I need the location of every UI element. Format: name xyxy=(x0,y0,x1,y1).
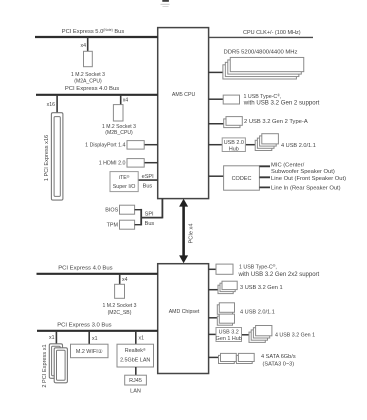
cropped heading remnant xyxy=(161,0,170,7)
svg-text:DDR5 5200/4800/4400 MHz: DDR5 5200/4800/4400 MHz xyxy=(223,49,297,55)
bus PCI Express 4.0 (CPU) xyxy=(36,94,158,96)
svg-text:PCI Express 4.0 Bus: PCI Express 4.0 Bus xyxy=(65,86,119,92)
svg-text:USB 3.2: USB 3.2 xyxy=(219,330,239,336)
wire drop x16 slot xyxy=(56,95,58,113)
AM5 CPU box U1 xyxy=(158,28,209,199)
svg-text:2.5GbE LAN: 2.5GbE LAN xyxy=(120,358,150,364)
wire drop M.2 WIFI xyxy=(88,331,90,345)
bus PCI Express 3.0 xyxy=(37,330,158,332)
RJ45 jack xyxy=(125,375,147,385)
USB 2.0 Hub xyxy=(222,138,245,152)
svg-text:(SATA3 0~3): (SATA3 0~3) xyxy=(263,361,295,367)
svg-text:x4: x4 xyxy=(122,277,128,283)
wire drop M2C xyxy=(119,274,121,285)
svg-text:(M2C_SB): (M2C_SB) xyxy=(108,310,132,316)
svg-text:x16: x16 xyxy=(47,102,55,108)
M.2 socket M2A_CPU xyxy=(84,51,93,66)
M.2 socket M2B_CPU xyxy=(113,105,123,121)
wire TPM to SPI junction xyxy=(135,224,142,226)
svg-text:4 USB 2.0/1.1: 4 USB 2.0/1.1 xyxy=(240,310,275,316)
svg-text:Gen 1 Hub: Gen 1 Hub xyxy=(216,336,242,342)
svg-text:eSPI: eSPI xyxy=(142,174,155,180)
svg-text:RJ45: RJ45 xyxy=(129,378,142,384)
svg-text:Bus: Bus xyxy=(143,184,153,190)
USB 2.0/1.1 double stack xyxy=(209,317,219,319)
svg-text:1 HDMI 2.0: 1 HDMI 2.0 xyxy=(99,161,126,167)
AMD Chipset box U2 xyxy=(158,264,209,374)
wire drop M2B xyxy=(120,95,122,105)
bus CPU CLK xyxy=(209,36,314,38)
svg-text:PCI Express 3.0 Bus: PCI Express 3.0 Bus xyxy=(57,323,111,329)
SPI junction bracket xyxy=(140,209,142,226)
svg-text:1 M.2 Socket 3: 1 M.2 Socket 3 xyxy=(103,303,137,309)
svg-text:Subwoofer Speaker Out): Subwoofer Speaker Out) xyxy=(271,169,335,175)
svg-text:BIOS: BIOS xyxy=(105,208,118,214)
TPM header xyxy=(120,220,135,229)
svg-text:1 M.2 Socket 3: 1 M.2 Socket 3 xyxy=(71,72,105,78)
svg-text:x1: x1 xyxy=(139,336,145,342)
svg-text:Super I/O: Super I/O xyxy=(113,184,136,190)
eSPI bus wire xyxy=(138,179,158,181)
CODEC xyxy=(209,175,225,177)
svg-text:3 USB 3.2 Gen 1: 3 USB 3.2 Gen 1 xyxy=(240,285,283,291)
USB 3.2 Gen 2 Type-A stack xyxy=(209,123,226,125)
svg-text:1 DisplayPort 1.4: 1 DisplayPort 1.4 xyxy=(85,143,125,149)
svg-text:1 M.2 Socket 3: 1 M.2 Socket 3 xyxy=(102,124,136,130)
svg-text:MIC (Center/: MIC (Center/ xyxy=(271,163,305,169)
SATA connectors xyxy=(209,356,220,358)
wire BIOS to SPI junction xyxy=(135,209,142,211)
wire CPU to USB 2.0 Hub xyxy=(209,144,224,146)
USB Type-C (CPU) xyxy=(209,98,225,100)
svg-text:Realtek®: Realtek® xyxy=(125,348,146,354)
SPI bus wire to CPU xyxy=(141,199,162,219)
audio jack wires xyxy=(259,166,270,187)
svg-text:(M2B_CPU): (M2B_CPU) xyxy=(105,130,133,136)
svg-text:x4: x4 xyxy=(123,98,129,104)
svg-text:M.2 WIFI①: M.2 WIFI① xyxy=(76,349,103,355)
DisplayPort connector xyxy=(144,144,158,146)
svg-text:CODEC: CODEC xyxy=(232,176,252,182)
svg-text:SPI: SPI xyxy=(145,212,154,218)
svg-text:2 USB 3.2 Gen 2 Type-A: 2 USB 3.2 Gen 2 Type-A xyxy=(244,119,308,125)
svg-text:TPM: TPM xyxy=(107,223,119,229)
M.2 WIFI slot xyxy=(71,344,109,358)
USB 3.2 Gen 1 Hub xyxy=(216,328,242,342)
svg-text:4 USB 3.2 Gen 1: 4 USB 3.2 Gen 1 xyxy=(275,332,315,338)
svg-text:Line In (Rear Speaker Out): Line In (Rear Speaker Out) xyxy=(271,186,341,192)
svg-text:with USB 3.2 Gen 2 support: with USB 3.2 Gen 2 support xyxy=(243,100,320,107)
USB 3.2 Gen 1 stack xyxy=(209,289,220,291)
HDMI connector xyxy=(144,162,158,164)
svg-text:1 PCI Express x16: 1 PCI Express x16 xyxy=(44,135,50,181)
wire drop PCIe x1 slots xyxy=(55,331,57,344)
svg-text:AMD Chipset: AMD Chipset xyxy=(169,309,200,315)
svg-text:4 SATA 6Gb/s: 4 SATA 6Gb/s xyxy=(261,354,296,360)
svg-text:PCI Express 5.0(Note) Bus: PCI Express 5.0(Note) Bus xyxy=(62,28,125,35)
svg-text:AM5 CPU: AM5 CPU xyxy=(172,92,196,98)
Realtek 2.5GbE LAN xyxy=(117,344,154,367)
svg-text:(M2A_CPU): (M2A_CPU) xyxy=(74,79,102,85)
DDR5 DIMM stack xyxy=(209,71,225,73)
PCI Express x16 slot xyxy=(51,113,63,200)
USB 2.0/1.1 stack xyxy=(255,134,278,151)
svg-text:PCIe x4: PCIe x4 xyxy=(189,224,195,244)
svg-text:with USB 3.2 Gen 2x2 support: with USB 3.2 Gen 2x2 support xyxy=(238,272,320,278)
wire drop M2A xyxy=(87,37,89,52)
svg-text:Hub: Hub xyxy=(229,147,239,153)
svg-text:x1: x1 xyxy=(49,335,55,341)
svg-text:CPU CLK+/- (100 MHz): CPU CLK+/- (100 MHz) xyxy=(243,30,301,36)
wire drop Realtek LAN xyxy=(135,331,137,345)
svg-text:USB 2.0: USB 2.0 xyxy=(224,140,244,146)
USB 3.2 Gen 1 stack (hub) xyxy=(249,326,272,343)
wire USB 3.2 Gen 1 Hub to USB ports xyxy=(241,334,250,336)
iTE Super I/O xyxy=(110,172,138,192)
svg-text:2 PCI Express x1: 2 PCI Express x1 xyxy=(42,344,48,387)
PCI Express x1 slots xyxy=(49,344,62,379)
USB Type-C (chipset) xyxy=(209,268,218,270)
svg-text:1 USB Type-C®,: 1 USB Type-C®, xyxy=(239,264,277,270)
svg-text:x1: x1 xyxy=(92,336,98,342)
wire Realtek to RJ45 xyxy=(135,367,137,376)
svg-text:Line Out (Front Speaker Out): Line Out (Front Speaker Out) xyxy=(271,176,346,182)
svg-text:x4: x4 xyxy=(81,43,87,49)
svg-text:Bus: Bus xyxy=(145,221,155,227)
svg-text:4 USB 2.0/1.1: 4 USB 2.0/1.1 xyxy=(281,143,316,149)
BIOS chip xyxy=(120,205,135,214)
bus PCI Express 5.0 xyxy=(35,36,158,38)
svg-text:PCI Express 4.0 Bus: PCI Express 4.0 Bus xyxy=(58,266,112,272)
wire USB 2.0 Hub to USB ports xyxy=(245,144,256,146)
M.2 socket M2C_SB xyxy=(115,284,125,298)
bus PCI Express 4.0 (chipset) xyxy=(37,273,159,275)
svg-text:LAN: LAN xyxy=(130,389,141,395)
wire chipset to USB 3.2 Gen 1 Hub xyxy=(209,333,218,335)
PCIe x4 arrow between CPU and chipset xyxy=(179,199,188,264)
